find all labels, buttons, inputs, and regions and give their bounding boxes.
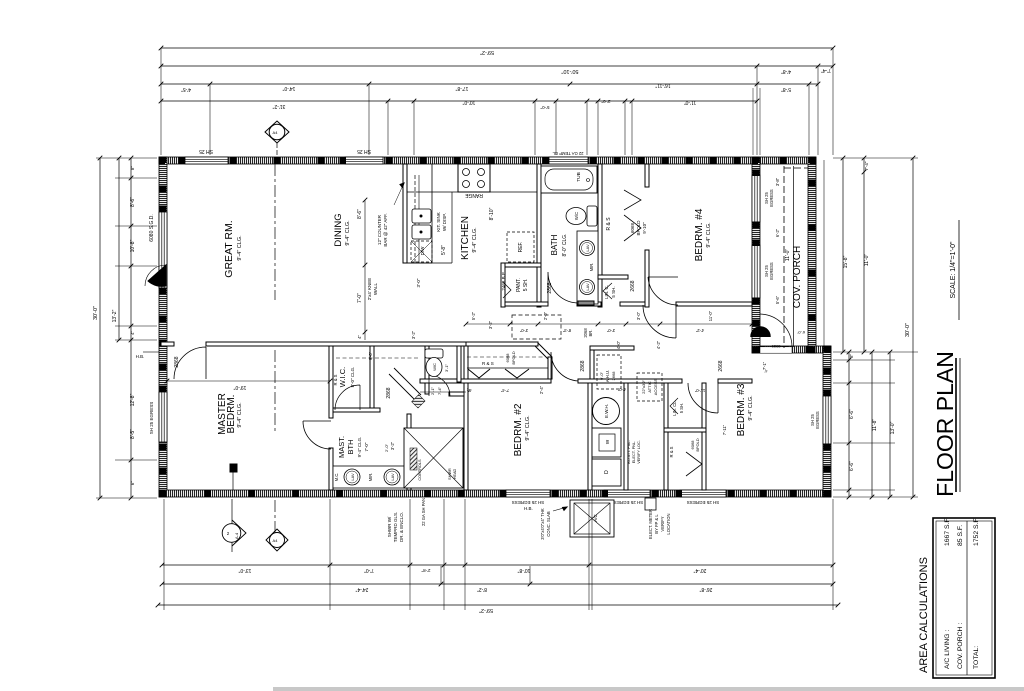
svg-text:R & S: R & S: [669, 446, 674, 457]
svg-text:R & S: R & S: [606, 217, 612, 231]
svg-text:4": 4": [357, 335, 362, 339]
svg-text:2'-0": 2'-0": [543, 311, 548, 320]
svg-text:2468 B.P.: 2468 B.P.: [501, 271, 506, 290]
refrigerator: [507, 232, 534, 262]
svg-text:A-4: A-4: [234, 532, 239, 539]
svg-text:VERIFY LOC.: VERIFY LOC.: [637, 440, 641, 464]
svg-text:17'-8": 17'-8": [455, 85, 468, 91]
svg-text:11'-0": 11'-0": [785, 249, 791, 262]
svg-text:H.B.: H.B.: [136, 354, 145, 359]
svg-text:14'-0": 14'-0": [282, 85, 295, 91]
svg-text:ACCESS: ACCESS: [653, 378, 658, 395]
door master suite entry: [303, 421, 331, 449]
svg-text:13'-2": 13'-2": [112, 309, 118, 322]
dryer: [592, 459, 621, 486]
svg-text:AREA CALCULATIONS: AREA CALCULATIONS: [918, 557, 930, 673]
bed2 closet south wall / h4: [420, 379, 551, 383]
svg-text:SH 25 EGRESS: SH 25 EGRESS: [611, 500, 644, 505]
svg-text:LIN. C.: LIN. C.: [604, 285, 609, 299]
door master bedroom entry 2868: [174, 347, 206, 379]
window SH25 great room top: [185, 157, 228, 164]
svg-text:5'-8": 5'-8": [441, 245, 447, 255]
svg-text:9'-4" CLG.: 9'-4" CLG.: [748, 395, 754, 421]
utility west wall: [588, 383, 592, 490]
svg-text:31'-2": 31'-2": [272, 103, 285, 109]
svg-text:6'-6": 6'-6": [849, 461, 855, 471]
svg-text:BEDRM. #3: BEDRM. #3: [736, 383, 747, 436]
kitchen sink: [412, 209, 431, 223]
svg-text:KIT. SINK: KIT. SINK: [436, 212, 441, 232]
water heater: [593, 398, 620, 425]
bed2 closet shelf line: [467, 367, 548, 369]
svg-text:10'-0": 10'-0": [462, 99, 475, 105]
svg-text:11'-0": 11'-0": [708, 310, 713, 321]
porch door opening in south wall: [760, 347, 792, 353]
title underline: [955, 358, 957, 492]
svg-text:DINING: DINING: [333, 213, 344, 246]
svg-text:BO ATT. PNL.: BO ATT. PNL.: [627, 440, 631, 463]
bed2 west wall: [464, 346, 468, 490]
mid wall continuation: [206, 342, 466, 346]
svg-text:8'-2": 8'-2": [477, 586, 487, 592]
tub: [541, 166, 597, 193]
dim line left 13-2: [118, 158, 120, 340]
svg-text:VERIFY: VERIFY: [660, 516, 665, 531]
svg-text:5'-6": 5'-6": [775, 295, 780, 304]
svg-text:2868: 2868: [174, 356, 180, 367]
porch corner extension: [823, 160, 825, 352]
svg-text:22 GA SH PAN: 22 GA SH PAN: [421, 498, 426, 526]
svg-text:3'-2": 3'-2": [390, 441, 395, 450]
svg-text:ATTIC: ATTIC: [647, 381, 652, 392]
svg-text:6": 6": [130, 481, 135, 486]
svg-text:12'-8": 12'-8": [130, 393, 136, 406]
ac pad: [570, 500, 614, 537]
svg-text:8'-10": 8'-10": [489, 207, 495, 220]
window bedroom3 right wall: [823, 396, 831, 444]
svg-text:7'-4": 7'-4": [437, 386, 442, 395]
sliding glass door left wall: [159, 212, 167, 288]
svg-text:85 S.F.: 85 S.F.: [957, 525, 964, 546]
door bedroom4 closet: [648, 277, 678, 305]
master bath vanity: [333, 466, 407, 488]
svg-text:22 GA TEMP GL: 22 GA TEMP GL: [552, 151, 584, 156]
svg-text:9'-4" CLG.: 9'-4" CLG.: [237, 235, 243, 261]
svg-text:8'-0" CLG.: 8'-0" CLG.: [350, 367, 355, 388]
svg-text:22"x30": 22"x30": [641, 380, 646, 394]
svg-text:COV. PORCH :: COV. PORCH :: [957, 623, 964, 669]
window SH25 dining top: [345, 157, 383, 164]
window bedroom4 right wall lower: [752, 245, 760, 298]
porch slab edge line: [793, 166, 795, 347]
svg-text:26'-8": 26'-8": [699, 586, 712, 592]
kitchen counters: [407, 191, 458, 193]
svg-text:6068: 6068: [505, 353, 510, 363]
svg-text:BEDRM. #4: BEDRM. #4: [694, 208, 705, 261]
svg-text:24'-4": 24'-4": [355, 586, 368, 592]
porch roof dashed line: [783, 166, 785, 348]
svg-text:A/C: A/C: [593, 514, 598, 522]
svg-text:4'-2": 4'-2": [695, 328, 704, 333]
interior wall hall north segment a: [501, 302, 548, 306]
svg-text:3'0"x4'0"x4" THK: 3'0"x4'0"x4" THK: [540, 508, 545, 540]
svg-text:LOCATION: LOCATION: [666, 513, 671, 534]
svg-text:8'-3": 8'-3": [562, 328, 571, 333]
master internal dim line: [167, 380, 330, 382]
svg-text:GREAT RM.: GREAT RM.: [223, 220, 235, 277]
svg-text:30'-0": 30'-0": [905, 323, 911, 337]
suite west wall upper: [329, 346, 333, 418]
dim line top A 59-2: [161, 47, 833, 49]
toilet hall bath: [587, 206, 597, 226]
interior wall hall north segment c: [620, 302, 645, 306]
svg-text:3'-1": 3'-1": [444, 363, 449, 372]
svg-text:A/C LIVING :: A/C LIVING :: [944, 630, 951, 669]
svg-text:2668: 2668: [718, 360, 724, 371]
left extension lines: [96, 158, 157, 498]
pantry north wall: [501, 263, 541, 267]
svg-text:D: D: [604, 470, 610, 474]
dim right upper lines: [842, 158, 844, 352]
exterior wall top: [159, 157, 816, 164]
svg-text:59'-2": 59'-2": [480, 49, 494, 55]
svg-text:5 SH.: 5 SH.: [611, 286, 616, 297]
svg-text:3'-0": 3'-0": [606, 328, 615, 333]
svg-text:DR. & ENCLO.: DR. & ENCLO.: [399, 512, 404, 542]
svg-text:4": 4": [130, 331, 135, 335]
svg-text:10'-8": 10'-8": [517, 567, 530, 573]
svg-text:11'-0": 11'-0": [694, 388, 705, 393]
wic east wall: [370, 346, 374, 408]
svg-text:RANGE: RANGE: [464, 192, 482, 198]
svg-text:E.W.H.: E.W.H.: [604, 404, 609, 418]
window bedroom2 bottom wall: [506, 490, 550, 497]
dim line top D: [161, 100, 757, 102]
svg-text:LAV: LAV: [350, 473, 355, 481]
svg-text:EGRESS: EGRESS: [769, 189, 774, 207]
svg-text:7'-11": 7'-11": [722, 424, 727, 435]
svg-text:5'-0": 5'-0": [540, 105, 549, 110]
svg-text:BY FP & L: BY FP & L: [654, 514, 659, 534]
interior wall bedroom4 left lower: [645, 250, 649, 307]
svg-text:11'-0": 11'-0": [864, 254, 870, 267]
mid wall great room / master: [161, 342, 174, 346]
wall studs/posts: [159, 157, 831, 497]
wall section mark: [230, 464, 237, 472]
svg-text:5 SH.: 5 SH.: [679, 403, 684, 413]
toilet compartment south wall: [449, 392, 466, 396]
window bath top: [549, 157, 588, 164]
scale underline: [958, 220, 960, 320]
svg-text:7'-0": 7'-0": [357, 293, 363, 303]
ahu closet: [597, 355, 621, 389]
svg-text:TOTAL:: TOTAL:: [973, 646, 980, 669]
svg-text:KITCHEN: KITCHEN: [460, 216, 471, 260]
svg-text:50'-10": 50'-10": [561, 68, 578, 74]
utility east wall: [624, 383, 628, 490]
window hall bottom wall: [604, 490, 650, 497]
linen closet hall: [598, 275, 628, 279]
dim line left inner: [130, 158, 132, 498]
wic south wall: [333, 408, 380, 412]
centerline master: [274, 350, 276, 432]
svg-text:5'-8": 5'-8": [781, 86, 791, 92]
svg-text:SHWR W/: SHWR W/: [387, 516, 392, 537]
bed2 closet bifold chevrons: [468, 369, 490, 378]
svg-text:4'-0": 4'-0": [616, 340, 621, 349]
door toilet compartment: [429, 375, 450, 396]
svg-text:M.C.: M.C.: [334, 473, 339, 482]
linen/bed3 closet east wall: [702, 383, 706, 490]
door porch 3080 black leaf fan: [751, 327, 770, 337]
svg-text:8'-6": 8'-6": [130, 197, 136, 207]
svg-text:6080 S.G.D.: 6080 S.G.D.: [149, 214, 155, 242]
svg-text:5 SH.: 5 SH.: [523, 279, 529, 292]
svg-text:8'-5": 8'-5": [130, 429, 136, 439]
svg-text:9'-4" CLG.: 9'-4" CLG.: [357, 437, 362, 458]
bed2 closet rod dashed: [467, 356, 545, 358]
section circle bottom left: [222, 499, 246, 552]
svg-text:4'-2": 4'-2": [656, 340, 661, 349]
svg-text:59'-2": 59'-2": [479, 607, 493, 613]
washer: [592, 428, 621, 457]
interior wall bath/closet: [598, 164, 602, 307]
hall dim line: [466, 323, 752, 325]
bottom extension lines: [164, 499, 833, 610]
svg-text:MAST.: MAST.: [337, 436, 346, 458]
svg-text:7'-4": 7'-4": [500, 388, 509, 393]
svg-text:3080: 3080: [771, 344, 781, 349]
svg-text:CONC. SLAB: CONC. SLAB: [546, 511, 551, 537]
svg-text:W/ DISP.: W/ DISP.: [442, 213, 447, 231]
svg-text:BEDRM. #2: BEDRM. #2: [513, 403, 524, 456]
suite west wall lower: [329, 448, 333, 490]
window master left wall: [159, 392, 167, 442]
svg-text:D/W: D/W: [420, 246, 425, 256]
dim line top B: [161, 65, 833, 67]
angled wall: [394, 368, 421, 395]
hall small dims: [368, 310, 767, 435]
svg-text:4'-5": 4'-5": [181, 86, 191, 92]
svg-text:HEAD: HEAD: [453, 468, 457, 479]
svg-text:W.I.C.: W.I.C.: [338, 367, 347, 387]
svg-text:A.H.U.: A.H.U.: [605, 370, 610, 382]
svg-text:7'-0": 7'-0": [364, 567, 374, 573]
area calc box: [933, 518, 995, 678]
svg-text:LAV: LAV: [585, 283, 590, 291]
svg-text:EGRESS: EGRESS: [769, 262, 774, 280]
dim line left 30-0: [99, 158, 101, 498]
svg-text:FLOOR PLAN: FLOOR PLAN: [932, 351, 958, 497]
svg-text:R & S: R & S: [333, 374, 338, 385]
section diamond top: [265, 121, 289, 143]
svg-text:9'-4" CLG.: 9'-4" CLG.: [237, 402, 243, 428]
svg-text:3'-8": 3'-8": [775, 177, 780, 186]
dining dim line: [364, 200, 366, 340]
svg-text:4'-0": 4'-0": [617, 387, 626, 392]
svg-text:BEDRM.: BEDRM.: [226, 395, 237, 434]
svg-text:15'-8": 15'-8": [843, 255, 849, 268]
svg-text:6'-2": 6'-2": [775, 228, 780, 237]
interior wall kitchen knee wall: [403, 164, 407, 263]
svg-text:7'-4": 7'-4": [821, 67, 831, 73]
svg-text:LAV: LAV: [585, 244, 590, 252]
svg-text:8'-0" CLG.: 8'-0" CLG.: [562, 233, 568, 256]
svg-text:2'-0": 2'-0": [384, 443, 389, 452]
svg-text:13'-0": 13'-0": [890, 421, 896, 434]
svg-text:BR.: BR.: [588, 330, 593, 337]
interior wall kitchen/bath: [537, 164, 541, 307]
master bath shower west wall: [407, 414, 411, 490]
linen/bed3 closet west wall: [664, 383, 668, 490]
window bedroom4 right wall upper: [752, 175, 760, 222]
svg-text:19'-0": 19'-0": [233, 384, 246, 390]
window bedroom3 bottom wall: [680, 490, 726, 497]
svg-text:LAV: LAV: [390, 473, 395, 481]
svg-text:SH 25: SH 25: [199, 148, 213, 154]
svg-text:2'x4' KNEE: 2'x4' KNEE: [367, 278, 372, 300]
svg-text:7'-4": 7'-4": [864, 161, 869, 170]
svg-text:2868: 2868: [386, 387, 392, 398]
svg-text:9'-0": 9'-0": [368, 351, 373, 360]
bath vanity: [577, 231, 598, 304]
table divider: [966, 521, 968, 675]
svg-text:5'-2": 5'-2": [471, 311, 476, 320]
master shower: [404, 428, 463, 488]
svg-text:16'-11": 16'-11": [655, 82, 670, 88]
top extension lines: [161, 48, 833, 155]
svg-text:COV. PORCH: COV. PORCH: [792, 246, 803, 308]
svg-text:2'-4": 2'-4": [539, 385, 544, 394]
svg-text:12" COUNTER: 12" COUNTER: [377, 214, 382, 245]
door hall bath 2868: [548, 272, 577, 303]
svg-text:9'-10": 9'-10": [642, 222, 647, 234]
svg-text:SCALE: 1/4"=1'-0": SCALE: 1/4"=1'-0": [950, 241, 957, 299]
svg-text:PANT.: PANT.: [516, 278, 522, 292]
svg-text:4'-8": 4'-8": [781, 68, 791, 74]
svg-text:3'-0": 3'-0": [519, 328, 528, 333]
svg-text:2668: 2668: [611, 371, 616, 381]
svg-text:1752 S.F.: 1752 S.F.: [973, 517, 980, 546]
svg-text:BATH: BATH: [550, 234, 559, 255]
bed2 closet right stub: [548, 357, 552, 379]
svg-text:3'-0": 3'-0": [416, 278, 421, 287]
svg-text:SH 25 EGRESS: SH 25 EGRESS: [149, 402, 154, 435]
svg-text:6'-0": 6'-0": [796, 330, 805, 335]
svg-text:REF.: REF.: [518, 242, 524, 253]
toilet compartment east wall: [457, 346, 461, 382]
section diamond bottom: [266, 529, 288, 551]
svg-text:11'-8": 11'-8": [872, 419, 878, 432]
svg-text:TEMPRD GLS.: TEMPRD GLS.: [393, 512, 398, 543]
bed2 closet top wall: [466, 342, 538, 346]
right extension lines: [833, 158, 918, 497]
door bedroom2: [551, 352, 578, 381]
pantry west wall: [501, 263, 505, 307]
svg-text:A4: A4: [273, 130, 279, 135]
svg-text:BFOLD: BFOLD: [636, 220, 641, 236]
svg-text:2'-8": 2'-8": [421, 568, 430, 573]
sliding glass door interior swing mark: [148, 265, 166, 286]
dim right 30-0: [912, 158, 914, 497]
svg-text:3'-0": 3'-0": [636, 311, 641, 320]
wic rod dashed: [336, 357, 418, 359]
svg-text:W/C: W/C: [432, 363, 437, 371]
marble sill: [578, 301, 594, 305]
dim line bottom 3 59-2: [158, 604, 838, 606]
centerline dining: [274, 164, 276, 300]
svg-text:9'-4" CLG.: 9'-4" CLG.: [345, 220, 351, 246]
svg-text:2868: 2868: [547, 282, 553, 293]
svg-text:H.B.: H.B.: [524, 506, 533, 511]
bed2 closet corner diagonal: [538, 343, 552, 357]
svg-text:4': 4': [466, 388, 471, 391]
svg-text:20'-4": 20'-4": [693, 567, 706, 573]
interior wall bedroom4 left upper: [645, 164, 649, 187]
door bedroom3: [688, 383, 718, 413]
svg-text:3'-2": 3'-2": [488, 320, 493, 329]
dim line bottom 1: [162, 564, 833, 566]
porch right wall: [808, 157, 816, 353]
svg-text:13'-0": 13'-0": [238, 567, 251, 573]
svg-text:ELECT. METER: ELECT. METER: [648, 509, 653, 539]
door wic: [335, 385, 360, 410]
bottom gray bar: [273, 687, 1024, 691]
svg-text:EGRESS: EGRESS: [815, 411, 820, 429]
svg-text:BAR @ 42" AFF.: BAR @ 42" AFF.: [383, 213, 388, 246]
svg-text:2668: 2668: [630, 280, 636, 291]
svg-text:9'-4" CLG.: 9'-4" CLG.: [706, 222, 712, 248]
svg-text:2868: 2868: [580, 360, 586, 371]
interior wall hall north segment b: [577, 302, 601, 306]
exterior wall left: [159, 157, 167, 497]
interior wall bed4 south: [676, 302, 752, 306]
svg-text:SH 25 EGRESS: SH 25 EGRESS: [512, 500, 545, 505]
svg-text:WALL: WALL: [373, 282, 378, 295]
dim line bottom 2: [162, 583, 833, 585]
linen closet divider: [664, 428, 706, 432]
svg-text:SHWR: SHWR: [448, 468, 452, 480]
svg-text:R & S: R & S: [482, 361, 494, 366]
dim line top C: [161, 83, 818, 85]
door bedroom4 from hall: [643, 305, 676, 338]
svg-text:8'-6": 8'-6": [357, 209, 363, 219]
svg-text:BFOLD: BFOLD: [695, 438, 700, 451]
svg-text:LIN. CL.: LIN. CL.: [672, 400, 677, 415]
svg-text:TUB: TUB: [576, 172, 582, 182]
attic access: [637, 373, 662, 401]
svg-text:9'-4" CLG.: 9'-4" CLG.: [472, 227, 478, 253]
dishwasher: [411, 241, 432, 262]
master toilet: [425, 349, 443, 358]
hall dashed box: [512, 315, 561, 339]
svg-text:2'-1": 2'-1": [430, 386, 435, 395]
bedroom 3 right exterior wall: [823, 346, 831, 497]
svg-text:6'-6": 6'-6": [849, 409, 855, 419]
svg-text:9'-0": 9'-0": [599, 371, 604, 380]
svg-text:2'-0": 2'-0": [601, 99, 610, 104]
exterior wall right of bedroom 4: [752, 157, 760, 353]
range: [458, 164, 490, 192]
svg-text:7'-1": 7'-1": [762, 361, 767, 370]
svg-text:1667 S.F.: 1667 S.F.: [944, 517, 951, 546]
bed2/3 top wall segments: [578, 379, 682, 383]
svg-text:30'-0": 30'-0": [93, 306, 99, 320]
diamond stem dash: [276, 143, 278, 157]
svg-text:8": 8": [849, 354, 854, 358]
svg-text:11'-0": 11'-0": [684, 99, 697, 105]
svg-text:7'-0": 7'-0": [364, 442, 369, 451]
